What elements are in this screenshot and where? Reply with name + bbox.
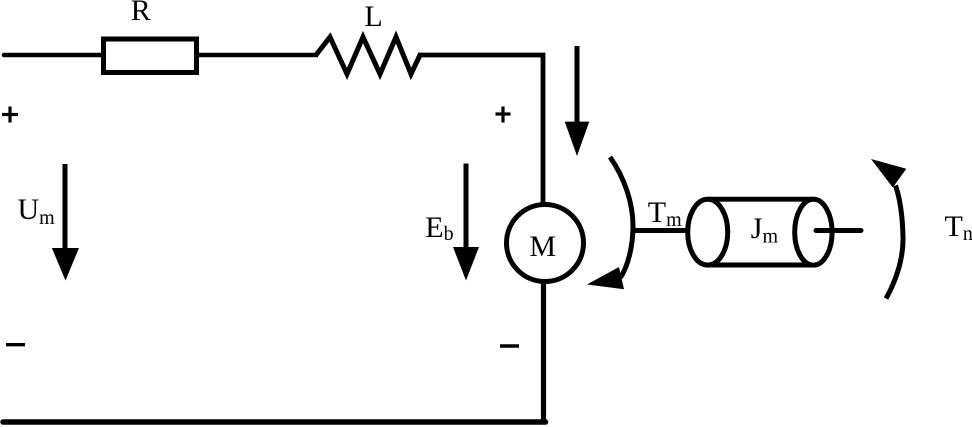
resistor R: [104, 39, 197, 73]
svg-text:M: M: [529, 230, 556, 263]
wire shaft right (Jm output): [816, 228, 861, 233]
motor M circle: [507, 205, 584, 282]
svg-text:R: R: [131, 0, 151, 27]
plus terminal left: [2, 107, 18, 123]
arrow current into motor: [565, 46, 590, 156]
wire between R and L: [196, 53, 318, 58]
svg-text:Tm: Tm: [648, 196, 682, 231]
minus terminal left: [6, 343, 25, 346]
arrow Eb (back-EMF direction): [453, 164, 479, 281]
inertia cylinder Jm body: [688, 199, 832, 265]
arrow Um (voltage direction): [52, 164, 79, 281]
svg-text:Tn: Tn: [945, 210, 972, 245]
wire top-left segment: [4, 53, 103, 58]
inductor L zigzag: [316, 37, 420, 74]
svg-text:Eb: Eb: [425, 211, 453, 245]
wire shaft left (motor to Jm): [633, 228, 690, 233]
wire bottom rail: [3, 419, 546, 425]
arc torque Tm around motor: [587, 157, 633, 289]
minus terminal right: [500, 344, 519, 347]
svg-text:Um: Um: [18, 193, 56, 229]
wire from motor bottom to bottom rail: [541, 281, 546, 424]
wire from L to top-right corner and down to motor: [418, 55, 543, 206]
left ellipse of Jm: [688, 199, 728, 265]
right ellipse of Jm: [795, 199, 832, 265]
arc torque Tn at load: [871, 159, 906, 299]
plus terminal right: [496, 107, 511, 123]
svg-text:L: L: [364, 0, 382, 33]
